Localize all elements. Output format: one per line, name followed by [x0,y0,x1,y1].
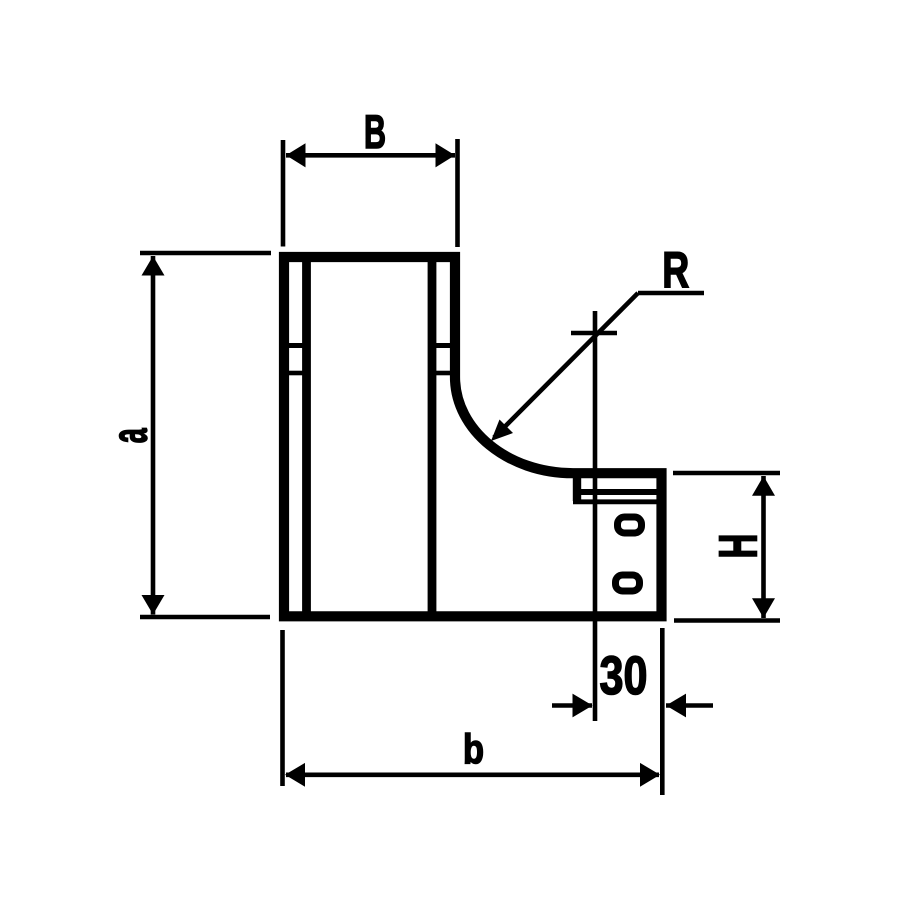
hole slot 1 [618,517,642,533]
dimension a: label a (rotated) [101,428,157,444]
dimension 30: dimension line right tail [666,703,713,708]
svg-text:30: 30 [600,646,648,706]
flange lower line [573,499,659,504]
left wall inner line [302,257,311,616]
dimension b: left arrowhead [285,763,305,787]
dimension a: dimension line [151,256,156,615]
svg-text:R: R [662,242,689,299]
dimension b: right arrowhead [640,763,660,787]
hole slot 2 [616,575,640,591]
dimension B: left arrowhead [286,143,306,167]
right wall rung tick 2 [435,371,451,376]
left wall rung tick 1 [288,343,304,348]
dimension a: top extension line [140,251,271,256]
dimension 30: dimension line left tail [552,703,592,708]
dimension H: top extension line [673,471,780,476]
part outer contour (top edge, left wall, right wall, radius curve, flange top, flange right edge, bottom edge) [284,257,662,616]
dimension H: dimension line [761,476,766,618]
flange step vertical [573,472,581,501]
dimension B: left extension line [281,140,286,247]
dimension H: bottom extension line [674,618,780,623]
radius callout: leader diagonal segment [494,293,638,438]
dimension H: bottom arrowhead [752,598,775,618]
svg-text:B: B [364,105,386,158]
dimension 30: right arrowhead (pointing left) [666,694,686,718]
radius callout: leader horizontal segment [638,291,704,296]
left wall rung tick 2 [288,371,304,376]
svg-text:a: a [101,428,157,444]
dimension B: dimension line [286,153,455,158]
svg-text:b: b [463,726,484,773]
dimension b: left extension line [280,630,285,786]
right wall inner line [428,257,437,616]
dimension a: bottom extension line [140,615,270,620]
dimension 30: left arrowhead (pointing right) [573,694,593,718]
dimension H: label H (rotated) [709,534,769,559]
flange middle line [581,489,659,495]
dimension 30: right extension line [660,628,665,795]
right wall rung tick 1 [435,343,451,348]
radius center tick horizontal [571,331,617,336]
radius callout: arrowhead on arc [491,420,513,442]
dimension a: top arrowhead [142,256,165,276]
radius center vertical extension line (also 30 left extension) [593,311,598,721]
dimension b: dimension line [286,772,659,777]
svg-text:H: H [709,534,769,559]
dimension B: right extension line [455,139,460,247]
dimension a: bottom arrowhead [142,595,165,615]
dimension H: top arrowhead [752,476,775,496]
dimension B: right arrowhead [436,143,456,167]
